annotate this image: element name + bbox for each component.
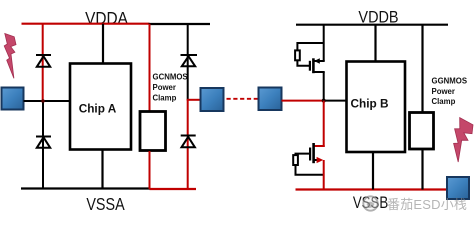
- wire R2 to M2 source tie: [296, 165, 325, 175]
- svg-text:Clamp: Clamp: [432, 97, 456, 106]
- wire red node C to M2 drain: [323, 101, 325, 147]
- junction pad node A: [41, 99, 45, 103]
- wire black VDDA to pad node B (upper middle diode): [187, 24, 189, 100]
- svg-text:Chip B: Chip B: [350, 97, 388, 111]
- svg-text:番茄ESD小栈: 番茄ESD小栈: [387, 197, 467, 212]
- junction node C: [322, 99, 326, 103]
- wire red pad node B to VSSA (lower middle diode): [187, 100, 189, 189]
- svg-text:GCNMOS: GCNMOS: [153, 73, 188, 82]
- wire red power clamp to VSSA: [149, 151, 151, 189]
- wire Chip B top to VDDB: [374, 25, 376, 62]
- watermark logo circle: [363, 196, 377, 210]
- svg-text:Power: Power: [432, 87, 455, 96]
- M2 gate bar: [309, 148, 311, 161]
- chip B box: [347, 62, 406, 153]
- pad P2 (output pad of Chip A): [201, 88, 224, 111]
- chip A box: [70, 64, 131, 150]
- M1 drain lead with arrow: [314, 60, 325, 62]
- resistor R2: [293, 155, 298, 165]
- wire black node C to Chip B: [324, 100, 347, 102]
- svg-text:VSSA: VSSA: [86, 196, 125, 215]
- wire VDDA rail (red segment): [22, 23, 150, 25]
- wire VSSA rail (red segment): [150, 188, 197, 190]
- wire VDDB to GGNMOS clamp: [421, 25, 423, 113]
- M2 source lead with red arrow: [314, 159, 318, 161]
- wire VSSB rail (red): [296, 188, 449, 190]
- wire Chip A bottom to VSSA: [101, 150, 103, 189]
- wire Chip B bottom to VSSB: [372, 152, 374, 190]
- wire red pad node B to pad P2: [187, 99, 200, 101]
- diode D2 VSSA-to-pad: [36, 137, 51, 148]
- svg-text:VDDA: VDDA: [85, 9, 128, 28]
- pad P1 (I/O pad of Chip A): [2, 88, 24, 110]
- wire pad P1 to Chip A: [24, 100, 71, 102]
- diode D4 VSSA-to-pad: [181, 136, 196, 148]
- transistor M2 pull-down of driver: [293, 101, 325, 190]
- wire R1 to M1 gate: [297, 60, 310, 66]
- M1 channel bar: [312, 58, 315, 73]
- wire red pad P3 to node C: [282, 100, 325, 102]
- wire Chip A top to VDDA: [102, 24, 104, 64]
- wire GGNMOS clamp to VSSB: [421, 148, 423, 190]
- pad P3 (input pad of Chip B): [259, 88, 282, 111]
- ESD strike lightning bolt left: [4, 34, 16, 79]
- wire red VDDA to power clamp: [149, 24, 151, 112]
- wire black pad node to VSSA (left lower diode): [42, 101, 44, 189]
- GCNMOS power clamp box U1: [140, 112, 166, 151]
- diode D1 pad-to-VDDA: [36, 55, 51, 67]
- wire dashed interconnect P2 to P3: [227, 98, 261, 100]
- M2 gate wire: [296, 154, 311, 156]
- svg-text:GGNMOS: GGNMOS: [432, 77, 468, 86]
- transistor M1 pull-up of driver: [295, 25, 325, 101]
- wire red branch VDDA to pad node (left diode string): [42, 24, 44, 101]
- GGNMOS power clamp box U2: [410, 113, 434, 150]
- ESD strike lightning bolt right: [454, 118, 473, 162]
- svg-text:Clamp: Clamp: [153, 94, 177, 103]
- diode D3 pad-to-VDDA: [181, 55, 198, 66]
- resistor R1: [295, 50, 300, 60]
- M1 gate resistor feed wire: [297, 43, 323, 50]
- M1 source lead: [313, 71, 324, 73]
- wire red M2 source to VSSB: [323, 160, 325, 190]
- svg-text:Power: Power: [153, 83, 176, 92]
- wire VSSA rail (black segment): [21, 187, 151, 189]
- pad P4 (pad of Chip B on VSSB): [447, 177, 469, 199]
- wire VDDB to M1 drain: [323, 25, 325, 61]
- wire VDDA rail (black segment): [149, 23, 211, 25]
- wire VDDB rail: [296, 24, 448, 26]
- svg-text:Chip A: Chip A: [79, 102, 117, 116]
- M1 gate bar: [309, 61, 311, 71]
- M2 channel bar: [312, 143, 315, 163]
- wire M1 source to node C: [323, 72, 325, 101]
- M2 drain lead: [314, 145, 325, 147]
